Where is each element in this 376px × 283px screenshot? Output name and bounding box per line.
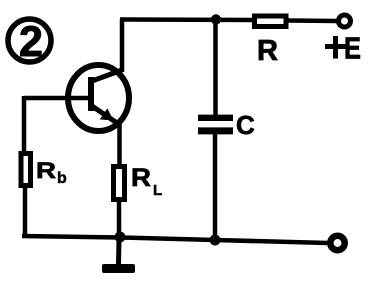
wire ground stub <box>116 240 122 264</box>
wire from resistor R to +E terminal <box>288 18 337 23</box>
svg-text:b: b <box>57 170 67 187</box>
capacitor C <box>198 118 233 131</box>
wire collector vertical up to top rail <box>120 19 125 72</box>
terminal +E <box>339 15 351 27</box>
wire capacitor branch lower segment <box>213 134 218 240</box>
svg-text:E: E <box>344 31 361 66</box>
node junction bottom middle (capacitor) <box>210 235 221 246</box>
wire below Rb down to bottom rail <box>23 188 28 238</box>
node junction top (capacitor branch) <box>211 14 221 24</box>
label +E <box>325 31 361 66</box>
wire emitter vertical down to RL <box>117 124 122 167</box>
terminal output bottom right <box>330 236 344 250</box>
resistor RL <box>114 167 125 200</box>
svg-text:2: 2 <box>19 18 43 66</box>
svg-text:C: C <box>236 110 255 140</box>
label RL <box>131 164 162 199</box>
wire capacitor branch upper segment <box>213 20 218 115</box>
ground <box>102 264 135 273</box>
svg-text:R: R <box>131 164 151 192</box>
wire base lead from node A to transistor base <box>24 96 88 101</box>
figure number label 2 (circled) <box>8 18 51 66</box>
svg-text:L: L <box>153 182 162 199</box>
node junction bottom left (ground/emitter) <box>115 232 126 243</box>
wire left vertical from base corner down to Rb <box>22 96 27 152</box>
wire bottom rail <box>22 236 328 243</box>
svg-text:R: R <box>257 35 278 67</box>
wire top rail from collector corner to resistor R <box>120 17 254 22</box>
resistor Rb <box>21 154 31 186</box>
resistor R <box>255 16 287 27</box>
label Rb <box>36 158 67 187</box>
transistor Q1 <box>68 65 129 131</box>
wire below RL down to bottom rail <box>117 200 122 238</box>
svg-text:R: R <box>36 158 56 183</box>
